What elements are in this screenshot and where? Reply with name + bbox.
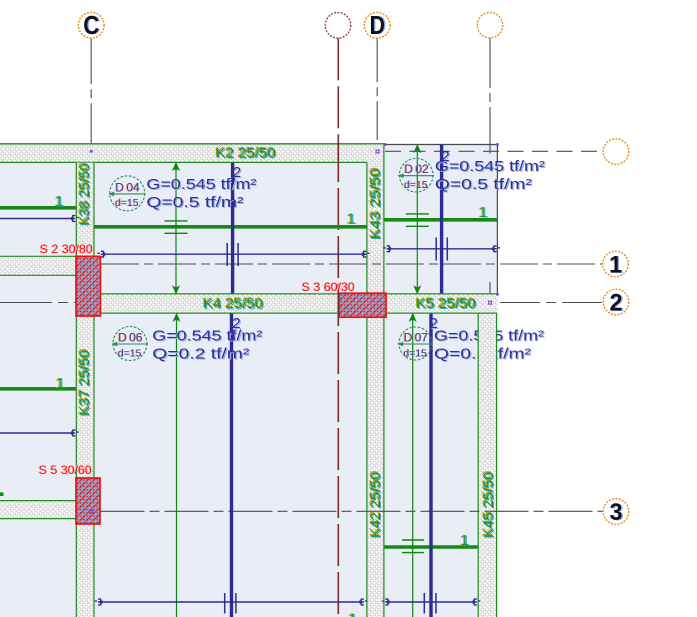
svg-text:D 06: D 06: [118, 331, 143, 345]
beam label K2 25/50: [215, 145, 277, 162]
beam K2 25/50 hatched band: [0, 144, 385, 163]
vertex marker at K5 right end: [496, 293, 499, 296]
grid axis vertical dash line under plain orange circle: [489, 38, 491, 154]
grid bubble plain orange right: [603, 139, 629, 165]
svg-text:1: 1: [56, 375, 64, 392]
svg-text:G=0.545 tf/m²: G=0.545 tf/m²: [152, 329, 262, 345]
svg-text:Q=0.2 tf/m²: Q=0.2 tf/m²: [152, 347, 249, 363]
slab edge of panel D02 (gray): [384, 145, 497, 294]
grid bubble plain orange top: [477, 13, 502, 38]
slab data bubble D04: [108, 176, 145, 211]
load text G Q of panel D02: [435, 159, 547, 194]
reinforcement label 1 left-upper: [54, 193, 65, 210]
grid axis 3 horizontal dash line: [101, 510, 603, 512]
slab axis line 2 of D07 (blue thick): [429, 314, 432, 617]
load text G Q of panel D07 (drawn under beam K45 hatch): [434, 329, 545, 364]
svg-text:Q=0.5 tf/m²: Q=0.5 tf/m²: [435, 177, 532, 193]
svg-text:D 02: D 02: [404, 162, 429, 176]
svg-text:K5 25/50: K5 25/50: [416, 296, 476, 311]
beam K37 25/50 hatched band: [76, 316, 95, 617]
svg-text:D 07: D 07: [404, 331, 429, 345]
svg-text:3: 3: [610, 499, 623, 526]
grid bubble maroon (unlabeled): [325, 12, 351, 38]
grid axis C vertical dash line: [90, 38, 92, 143]
svg-text:1: 1: [348, 610, 356, 617]
reinforcement label 1 D06 (cut at bottom): [347, 610, 358, 617]
slab main reinforcement line D02: [384, 218, 497, 222]
beam label K38 25/50 (rotated): [76, 162, 93, 226]
vertex marker on column S5 bottom: [83, 522, 86, 525]
column S3 60/30: [339, 293, 386, 317]
slab axis line 2 of D04 (blue thick): [231, 163, 234, 294]
slab data bubble D06: [111, 327, 148, 361]
column S2 30/80: [76, 256, 100, 316]
grid axis top-right horizontal dash line: [385, 150, 603, 152]
vertex marker at D axis end: [376, 150, 379, 153]
svg-text:1: 1: [479, 204, 487, 221]
svg-text:K37 25/50: K37 25/50: [77, 350, 92, 416]
beam K43 25/50 hatched band: [367, 144, 385, 293]
svg-text:2: 2: [232, 315, 240, 332]
column label S5 30/60: [38, 463, 92, 477]
axis label 2 of D02: [441, 148, 451, 166]
slab panel left-upper: [0, 163, 76, 257]
svg-text:1: 1: [609, 252, 622, 279]
svg-text:d=15: d=15: [118, 347, 142, 359]
beam K38 25/50 hatched band: [76, 163, 95, 257]
slab panel left-lower: [0, 276, 76, 501]
grid axis D vertical dash line: [376, 38, 378, 140]
svg-text:d=15: d=15: [403, 347, 427, 359]
reinforcement label 1 D07: [459, 532, 470, 549]
span direction line D07 (green) with top arrow and break: [402, 314, 424, 617]
beam label K43 25/50 (rotated): [367, 167, 384, 240]
slab main reinforcement line D04: [94, 225, 367, 229]
span direction line D04 (green) with arrows and break: [165, 163, 188, 293]
svg-text:D 04: D 04: [115, 180, 140, 194]
slab panel D02: [384, 145, 497, 294]
beam K42 25/50 hatched band: [367, 317, 385, 617]
svg-text:2: 2: [233, 164, 241, 181]
vertex marker at K38/K2: [90, 150, 93, 153]
slab data bubble D07: [397, 327, 433, 360]
grid bubble 3: [603, 499, 629, 527]
axis label 2 of D07: [430, 315, 440, 333]
dimension line left-lower panel (blue): [0, 430, 79, 437]
reinforcement label 1 D02: [478, 204, 489, 221]
slab axis line 2 of D06 (blue thick): [230, 314, 233, 617]
span direction line D02 (green) with arrows and break: [406, 145, 429, 293]
svg-text:1: 1: [55, 193, 63, 210]
svg-text:Q=0.5 tf/m²: Q=0.5 tf/m²: [146, 195, 243, 211]
left horizontal beam band lower: [0, 501, 76, 519]
beam K45 25/50 hatched band: [478, 294, 497, 617]
reinforcement label 1 left-lower: [55, 375, 66, 392]
slab panel D07: [384, 314, 477, 617]
svg-text:S 2 30/80: S 2 30/80: [40, 242, 93, 256]
beam K5 25/50 hatched band: [386, 294, 498, 313]
svg-text:S 5 30/60: S 5 30/60: [39, 463, 92, 477]
slab reinforcement line stub bottom-left: [0, 492, 4, 496]
grid axis 2 horizontal dash line left segment: [0, 302, 76, 304]
svg-text:K45 25/50: K45 25/50: [481, 472, 496, 538]
dimension line left-upper panel (blue): [0, 215, 79, 222]
svg-text:2: 2: [441, 148, 449, 165]
beam label K37 25/50 (rotated): [76, 349, 93, 417]
beam label K5 25/50: [415, 295, 477, 312]
svg-text:d=15: d=15: [115, 197, 139, 209]
dimension line D02 (blue) with breaks: [383, 238, 500, 261]
dimension line D07 (blue) with breaks: [382, 593, 481, 614]
vertex marker at K2/D02 joint: [384, 143, 387, 146]
svg-text:2: 2: [430, 315, 438, 332]
slab main reinforcement line left-lower panel: [0, 387, 76, 391]
grid bubble 2: [603, 289, 629, 317]
svg-text:D: D: [369, 10, 385, 40]
svg-text:S 3 60/30: S 3 60/30: [302, 280, 355, 294]
svg-text:C: C: [83, 10, 99, 40]
svg-text:d=15: d=15: [404, 179, 428, 191]
load text G Q of panel D04: [146, 177, 258, 212]
vertex marker at D02 top-right corner: [496, 143, 499, 146]
svg-text:G=0.545 tf/m²: G=0.545 tf/m²: [435, 159, 545, 175]
grid axis (maroon) vertical dashed line: [337, 38, 339, 143]
beam label K42 25/50 (rotated): [367, 471, 384, 539]
grid bubble C: [78, 10, 104, 40]
slab panel D04: [94, 163, 367, 294]
svg-text:1: 1: [347, 211, 355, 228]
vertex marker on column S5 right: [90, 510, 93, 513]
svg-text:K2 25/50: K2 25/50: [216, 146, 276, 161]
column label S2 30/80: [39, 242, 93, 256]
grid axis 2 horizontal dash line right segment: [500, 302, 603, 304]
svg-text:K4 25/50: K4 25/50: [203, 296, 263, 311]
grid axis 1 horizontal dash line: [101, 263, 603, 265]
beam label K45 25/50 (rotated): [480, 471, 497, 539]
slab data bubble D02: [398, 158, 434, 192]
svg-text:K38 25/50: K38 25/50: [77, 163, 92, 225]
svg-text:2: 2: [610, 290, 623, 317]
span direction line D06 (green) with top arrow: [174, 314, 179, 617]
dimension line D04 (blue) with breaks: [97, 243, 369, 266]
svg-text:K42 25/50: K42 25/50: [368, 472, 383, 538]
beam label K4 25/50: [202, 295, 264, 312]
load text G Q of panel D06: [152, 329, 264, 364]
slab panel left-bottom: [0, 519, 76, 617]
column S5 30/60: [76, 478, 100, 524]
vertex marker at grid2 axis: [489, 301, 492, 304]
slab panel D06: [94, 314, 367, 617]
left horizontal beam band upper: [0, 256, 76, 275]
reinforcement label 1 D04: [346, 211, 357, 228]
axis label 2 of D04: [233, 164, 243, 182]
axis label 2 of D06: [232, 315, 242, 333]
grid bubble 1: [603, 251, 629, 279]
slab main reinforcement line left-upper panel: [0, 206, 76, 210]
svg-text:1: 1: [460, 532, 468, 549]
dimension line D06 (blue) with breaks: [95, 593, 368, 614]
beam K4 25/50 hatched band: [100, 294, 339, 313]
svg-text:K43 25/50: K43 25/50: [368, 168, 383, 239]
slab axis line 2 of D02 (blue thick): [440, 145, 443, 294]
grid bubble D: [364, 10, 390, 40]
slab main reinforcement line D07: [384, 545, 477, 549]
column label S3 60/30: [301, 280, 355, 294]
